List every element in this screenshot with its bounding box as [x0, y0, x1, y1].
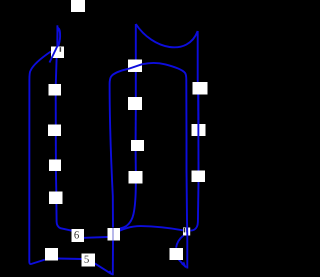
node L2: [49, 84, 62, 96]
node B1: [72, 229, 85, 242]
wire B6 to bottom right arrow junction: [179, 260, 186, 268]
node M3: [131, 140, 144, 151]
node L1: [51, 47, 64, 59]
wire chain M2-M3: [135, 110, 137, 140]
node B3: [82, 254, 96, 267]
node M2: [128, 97, 142, 110]
wire long middle descent from M1 to B4 top: [110, 69, 129, 228]
node M4: [129, 171, 143, 184]
wire left outer long edge from L1 down the left side into node B2: [29, 52, 51, 265]
wire chain M4 down and bend into B4 corner: [120, 184, 136, 229]
wire loop lens: [57, 28, 60, 46]
wire chain L4-L5: [55, 171, 57, 192]
node B4: [108, 228, 121, 241]
wire B5 to B6: [176, 236, 183, 248]
arrowhead bottom right junction: [181, 262, 186, 268]
node M1: [128, 60, 142, 73]
wire self-loop stub above node L1: [56, 25, 58, 46]
wire faint segment of vertical crossing node B4: [112, 228, 114, 241]
wire chain L1-L2: [55, 58, 58, 84]
wire B1 to B4: [84, 236, 108, 239]
wire chain R1-R3 crossing over box R2: [197, 95, 199, 171]
label 11 in node B5: [184, 228, 186, 232]
node L0 top cropped label box: [71, 0, 85, 12]
wire vertical from B4 bottom to bottom arrow junction: [112, 241, 114, 276]
node L3: [48, 125, 61, 137]
wire chain L5 to node B1 elbow: [56, 204, 71, 231]
node R3: [192, 171, 206, 183]
wire B3 to bottom arrow junction: [95, 263, 112, 274]
wire B2 to B3: [58, 258, 82, 261]
wire chain L2-L3: [55, 96, 57, 125]
node R1: [193, 82, 208, 95]
node R2: [192, 124, 206, 136]
node L5: [49, 192, 63, 205]
label 1 in node L1: [60, 47, 62, 52]
node B5: [183, 228, 190, 236]
wire shallow arc B4 to B5: [120, 226, 183, 231]
node B2: [45, 248, 58, 261]
node B6: [170, 248, 184, 260]
wire chain M1-M2: [135, 72, 137, 97]
wire pennant right vertical down to R1: [197, 31, 199, 82]
wire chain L3-L4: [55, 136, 57, 160]
wire chain R3 down bend into B5 right: [190, 182, 198, 231]
label 6 in node B1: [74, 231, 79, 238]
wire diagonal crossing node M1: [128, 64, 142, 69]
wire pennant left vertical above M1: [135, 24, 137, 60]
arrowhead bottom middle junction: [108, 270, 113, 275]
wire sag curve of pennant: [136, 24, 198, 47]
wire chain R1-R2: [197, 95, 199, 125]
node L4: [49, 160, 61, 172]
wire long right edge from M1 arc over and down through B5: [142, 63, 187, 269]
wire chain M3-M4: [135, 151, 137, 171]
wire diagonal crossing node L1: [50, 42, 60, 63]
label 5 in node B3: [85, 256, 89, 263]
